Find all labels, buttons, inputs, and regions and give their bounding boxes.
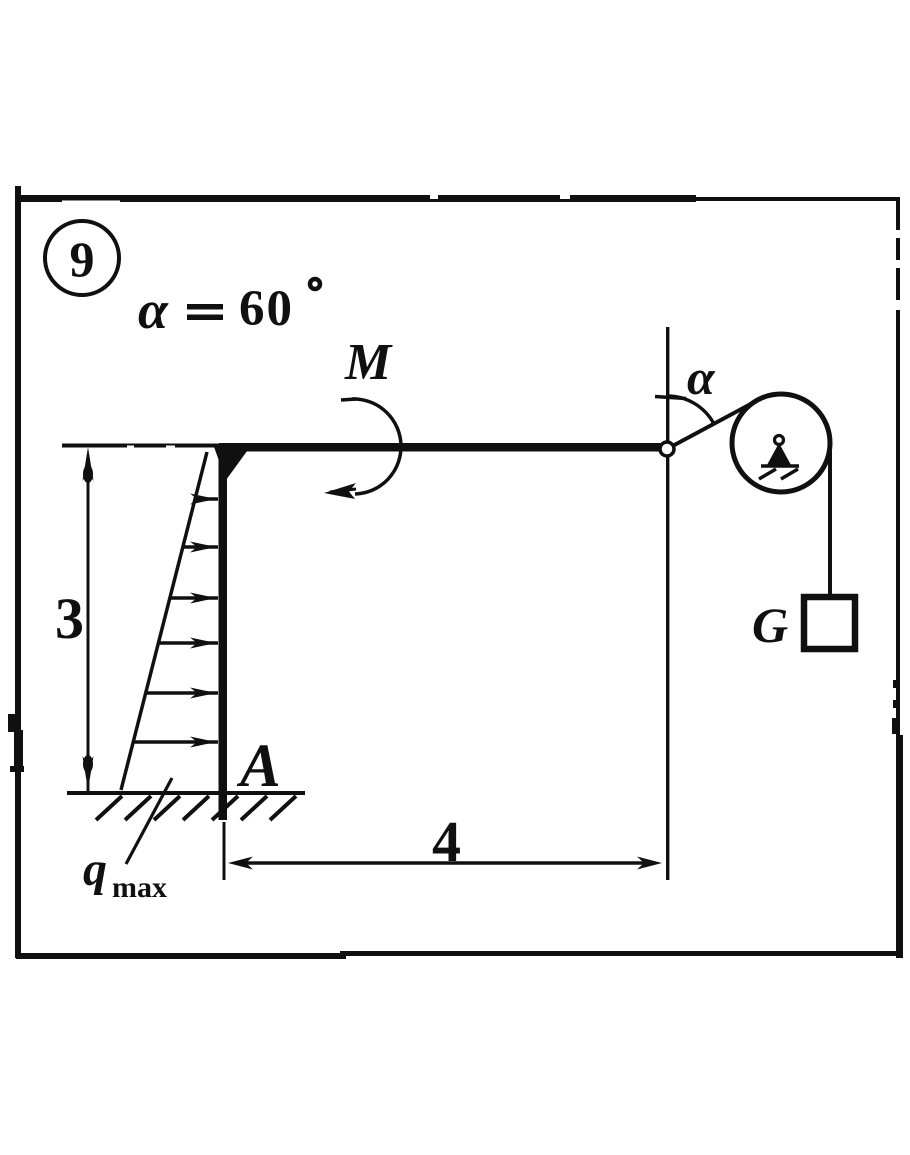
load arrow 1 (190, 494, 218, 505)
load arrow 3 (169, 593, 218, 604)
load arrow 5 (146, 688, 218, 699)
dimension 3 line (83, 447, 94, 792)
svg-text:G: G (752, 597, 788, 653)
pulley support pin symbol (759, 436, 799, 480)
vertical bar (219, 447, 228, 820)
dimension 4 extension line left (223, 822, 226, 880)
long extension line right (666, 327, 669, 880)
svg-text:A: A (236, 733, 281, 800)
label alpha = 60 deg (138, 279, 320, 340)
moment arc with arrow (324, 399, 401, 499)
pulley circle (732, 394, 830, 492)
border bottom (16, 951, 903, 959)
rope down to weight (828, 445, 832, 597)
ground hatching (96, 796, 296, 820)
horizontal bar (219, 443, 661, 452)
angle arc at pin (655, 396, 714, 424)
label q max (83, 843, 167, 904)
weight G box (804, 597, 855, 649)
thin extension line top left (62, 444, 223, 449)
svg-text:60: 60 (239, 281, 294, 337)
svg-text:q: q (83, 843, 107, 896)
svg-text:9: 9 (70, 231, 95, 287)
svg-text:max: max (112, 871, 167, 904)
svg-text:α: α (687, 349, 716, 405)
svg-text:4: 4 (432, 809, 461, 874)
q max leader line (126, 778, 172, 864)
border top (16, 195, 898, 203)
dimension 4 line (228, 857, 662, 870)
rope from pin to pulley (667, 399, 760, 449)
pin at bar end (660, 442, 674, 456)
svg-text:3: 3 (55, 586, 84, 651)
border left (8, 186, 24, 958)
load arrow 6 (133, 737, 218, 748)
circled number 9 (45, 221, 119, 295)
border right (892, 197, 903, 958)
load arrow 4 (158, 638, 218, 649)
svg-text:α: α (138, 280, 169, 340)
load arrow 2 (182, 542, 218, 553)
load slant line (121, 452, 207, 790)
corner fillet (214, 447, 250, 480)
svg-text:M: M (344, 334, 393, 391)
ground line (67, 791, 305, 795)
